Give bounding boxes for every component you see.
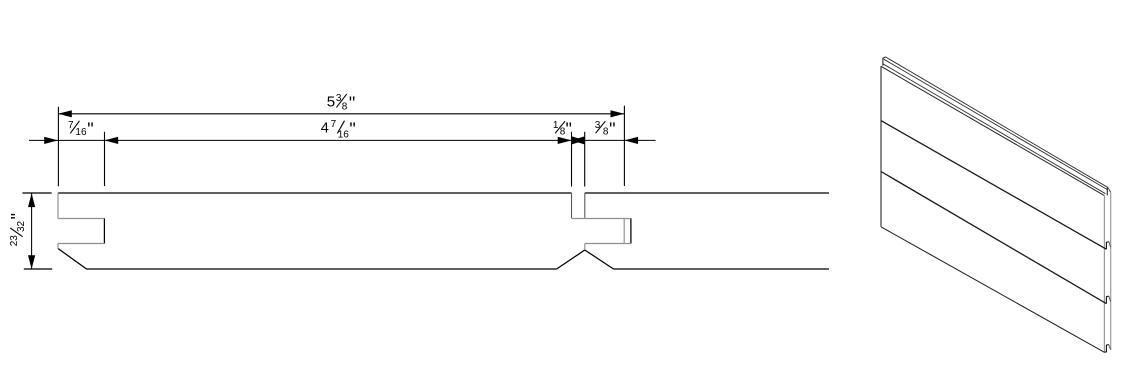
svg-text:5: 5 [327, 94, 335, 111]
arrow 5-3/8 left [58, 110, 72, 117]
board top edge right [585, 192, 829, 194]
arrow 23/32 bottom [28, 255, 35, 269]
3D seam 1 [881, 121, 1106, 250]
svg-text:32: 32 [16, 220, 27, 232]
extension line x584.8 [584, 132, 586, 187]
dim line 5-3/8 [58, 113, 624, 115]
left edge upper [57, 193, 59, 219]
3D right front vertical [1103, 196, 1105, 353]
tongue top seam [572, 218, 631, 220]
extension line x104.4 [104, 132, 106, 186]
arrow 7/16 left [44, 137, 58, 144]
3D ridge line 1 [886, 57, 1108, 187]
svg-text:": " [87, 120, 93, 140]
svg-text:3: 3 [595, 120, 601, 131]
arrow 4-7/16 left [104, 137, 118, 144]
svg-text:": " [349, 93, 355, 113]
label 3/8 [595, 120, 616, 140]
3D edge squiggle at seam 2 [1106, 296, 1108, 304]
extension line x624.3 [623, 106, 625, 186]
3D edge squiggle at seam 1 [1106, 242, 1108, 250]
groove bottom [58, 243, 104, 245]
joint vertical left [571, 193, 573, 218]
joint vertical right [584, 193, 586, 218]
3D ridge line 2 [884, 59, 1108, 189]
board top edge left [58, 192, 572, 194]
arrow 3/8 right [624, 137, 638, 144]
tongue tip [630, 218, 632, 243]
arrow 5-3/8 right [611, 110, 625, 117]
3D edge squiggle at bottom [1104, 345, 1108, 353]
3D seam 2 [881, 172, 1106, 304]
svg-text:16: 16 [75, 127, 87, 138]
arrow 4-7/16 right [558, 137, 572, 144]
svg-text:": " [349, 119, 355, 139]
svg-text:16: 16 [338, 129, 350, 140]
bowtie arrows 1/8 [572, 136, 585, 144]
label 1/8 [553, 120, 572, 140]
3D panel bottom edge [881, 227, 1104, 352]
board bottom edge right [614, 268, 830, 270]
groove depth line near tongue tip [623, 218, 625, 243]
3D top-right notch vertical [1106, 187, 1108, 195]
board bottom edge left [87, 268, 557, 270]
svg-text:": " [8, 213, 28, 219]
3D panel front top edge [881, 66, 1104, 195]
label 7/16 [68, 120, 94, 140]
left chamfer [58, 249, 87, 270]
arrow 23/32 top [28, 193, 35, 207]
3D ridge line 3 [883, 64, 1106, 194]
3D right back vertical [1110, 192, 1112, 349]
3D panel top-left notch [883, 57, 886, 66]
tick bottom [24, 268, 52, 270]
tongue bottom seam [585, 243, 631, 245]
svg-text:8: 8 [603, 127, 609, 138]
svg-text:8: 8 [342, 101, 348, 112]
apex stub [584, 244, 586, 250]
vertical dim line 23/32 [31, 193, 33, 269]
label 4-7/16 [321, 119, 356, 140]
groove top [58, 218, 104, 220]
dim line row2 [29, 139, 656, 141]
svg-text:4: 4 [321, 121, 329, 137]
svg-text:7: 7 [331, 119, 337, 130]
left edge lower [57, 244, 59, 249]
svg-text:": " [609, 120, 615, 140]
tick top [22, 192, 51, 194]
label 5-3/8 [327, 93, 355, 113]
extension line x58 [57, 107, 59, 187]
label 23/32 rotated [8, 213, 28, 246]
3D panel left edge [880, 66, 882, 227]
3D top-right corner diagonal [1108, 187, 1111, 192]
groove right wall [103, 218, 105, 243]
extension line x571.5 [571, 132, 573, 187]
svg-text:23: 23 [9, 235, 20, 247]
bottom V joint chamfers [557, 250, 614, 269]
svg-text:": " [566, 120, 572, 140]
